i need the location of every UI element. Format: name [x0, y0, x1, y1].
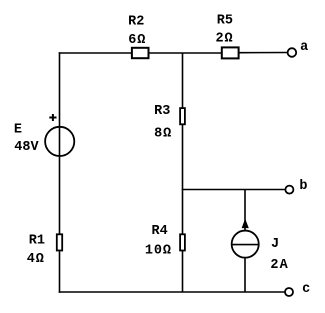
current source J — [232, 231, 259, 258]
svg-text:R4: R4 — [152, 224, 168, 239]
current direction arrowhead — [242, 219, 249, 229]
svg-text:R2: R2 — [128, 14, 144, 29]
svg-text:R3: R3 — [154, 104, 170, 119]
svg-text:b: b — [299, 179, 307, 194]
svg-text:8Ω: 8Ω — [154, 126, 172, 141]
svg-text:6Ω: 6Ω — [128, 33, 146, 48]
svg-text:10Ω: 10Ω — [145, 243, 172, 258]
svg-text:c: c — [302, 282, 310, 297]
svg-text:2Ω: 2Ω — [216, 32, 234, 47]
resistor R5 — [222, 47, 239, 58]
terminal b — [285, 186, 293, 194]
svg-text:2A: 2A — [270, 258, 288, 273]
resistor R1 — [57, 234, 62, 250]
wire current source top — [244, 190, 246, 231]
svg-text:4Ω: 4Ω — [27, 252, 45, 267]
wire middle vertical top — [182, 53, 184, 108]
voltage source E — [45, 127, 74, 156]
resistor R3 — [180, 108, 185, 124]
wire left vertical bottom — [59, 251, 61, 292]
wire current source bottom — [244, 258, 246, 292]
terminal a — [288, 48, 297, 57]
resistor R4 — [180, 234, 185, 250]
svg-text:R1: R1 — [29, 233, 45, 248]
wire node to terminal b — [182, 189, 285, 191]
svg-text:E: E — [14, 123, 22, 138]
svg-text:48V: 48V — [14, 140, 39, 155]
wire left vertical top — [59, 52, 61, 234]
wire middle vertical bottom — [182, 251, 184, 293]
resistor R2 — [132, 48, 149, 58]
wire top-left to R2 — [59, 52, 132, 54]
svg-text:a: a — [300, 40, 308, 55]
wire bottom — [59, 291, 285, 293]
wire middle vertical mid — [182, 124, 184, 234]
svg-text:R5: R5 — [217, 14, 233, 29]
wire R5 to terminal a — [239, 52, 287, 54]
terminal c — [285, 288, 293, 296]
svg-text:J: J — [271, 237, 279, 252]
wire R2 to R5 — [149, 52, 222, 54]
current source bar — [232, 244, 259, 246]
plus polarity mark — [49, 114, 56, 121]
